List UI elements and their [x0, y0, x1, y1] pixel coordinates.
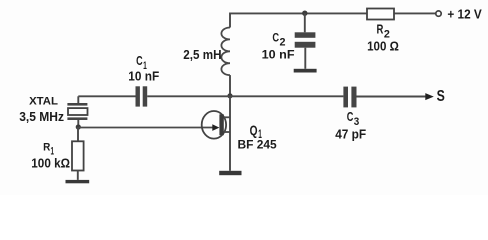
svg-text:C: C [347, 110, 354, 124]
capacitor C2 top plate [295, 32, 316, 38]
svg-text:XTAL: XTAL [29, 96, 58, 108]
svg-text:+ 12 V: + 12 V [447, 7, 482, 21]
transistor Q1 channel bar [219, 114, 223, 135]
svg-text:R: R [43, 141, 50, 153]
wire C2 to ground [304, 48, 306, 69]
capacitor C1 left plate [136, 86, 140, 106]
capacitor C3 right plate [351, 87, 356, 108]
wire top rail left segment [230, 12, 367, 14]
node junction dot below crystal [76, 124, 81, 129]
svg-text:S: S [437, 88, 445, 105]
ground bar below transistor [219, 171, 241, 175]
inductor L 2.5mH coil [221, 28, 230, 76]
wire drain-source vertical down to ground [229, 95, 231, 170]
wire gate line [78, 127, 212, 129]
wire signal line crystal to C1 [78, 95, 135, 97]
crystal bottom stub [77, 120, 79, 127]
resistor R2 [367, 9, 394, 20]
svg-text:BF 245: BF 245 [238, 138, 278, 152]
svg-text:47 pF: 47 pF [335, 127, 366, 142]
svg-text:C: C [136, 54, 143, 68]
terminal +12V open circle [436, 11, 441, 16]
resistor R1 [72, 141, 84, 170]
svg-text:3,5 MHz: 3,5 MHz [19, 110, 64, 124]
wire signal line C1 to C3 [147, 95, 343, 97]
ground bar below R1 [66, 180, 90, 183]
crystal body rectangle [68, 108, 88, 115]
svg-text:100 Ω: 100 Ω [367, 39, 399, 53]
ground bar below C2 [294, 69, 317, 73]
capacitor C2 bottom plate [295, 42, 316, 48]
crystal bottom plate [67, 117, 87, 120]
node junction dot drain [227, 93, 232, 98]
wire R1 to ground [77, 171, 79, 180]
transistor Q1 source stub [224, 131, 230, 133]
wire crystal node to R1 [77, 127, 79, 141]
crystal XTAL top stub [77, 96, 79, 103]
output arrowhead [425, 93, 434, 100]
svg-text:10 nF: 10 nF [128, 69, 159, 83]
capacitor C3 left plate [343, 87, 348, 108]
wire coil bottom to node [229, 75, 231, 95]
node junction dot at C2 tap [302, 11, 307, 16]
svg-text:2,5 mH: 2,5 mH [183, 48, 221, 62]
wire drain vertical top [229, 13, 231, 28]
wire signal line C3 to output arrow [357, 96, 427, 98]
crystal top plate [67, 103, 87, 106]
capacitor C1 right plate [143, 86, 148, 106]
transistor Q1 gate arrowhead [212, 124, 219, 131]
wire top rail right segment [394, 12, 436, 14]
svg-text:10 nF: 10 nF [262, 48, 295, 62]
wire C2 tap down [304, 13, 306, 32]
svg-text:Q: Q [250, 122, 258, 138]
transistor Q1 drain stub [224, 116, 230, 118]
svg-text:100 kΩ: 100 kΩ [31, 156, 70, 171]
svg-text:R: R [377, 22, 384, 36]
transistor Q1 circle [202, 111, 226, 139]
svg-text:C: C [272, 31, 279, 45]
